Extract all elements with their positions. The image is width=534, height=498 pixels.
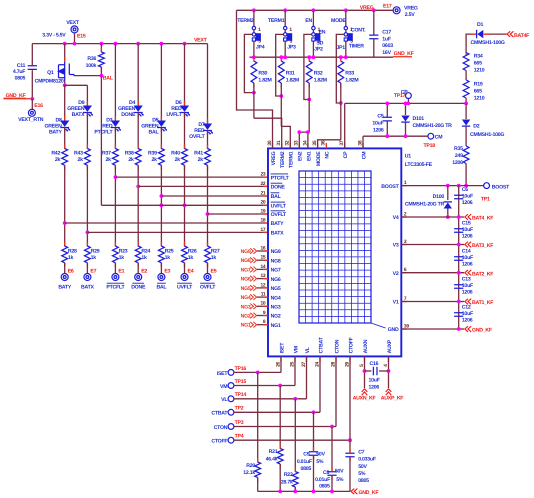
svg-text:BATX: BATX xyxy=(81,285,95,291)
svg-text:PTCFLT: PTCFLT xyxy=(94,130,113,136)
svg-text:TERM2: TERM2 xyxy=(280,151,286,168)
resistor R28 1k xyxy=(62,246,68,263)
capacitor C15 10uF xyxy=(454,229,463,233)
svg-text:E2: E2 xyxy=(141,269,147,275)
resistor R29 1k xyxy=(85,246,91,263)
wire C7 column xyxy=(349,440,351,453)
LED D8 xyxy=(60,121,70,132)
svg-text:R29: R29 xyxy=(91,249,100,255)
LED D7 xyxy=(203,124,213,135)
node AUXN_KF xyxy=(362,389,368,395)
svg-text:C11: C11 xyxy=(17,63,26,69)
svg-text:UVFLT: UVFLT xyxy=(177,285,193,291)
svg-text:OVFLT: OVFLT xyxy=(189,134,205,140)
svg-text:JP4: JP4 xyxy=(256,44,265,50)
node VEXT bus xyxy=(32,43,207,45)
node GND bus (jumpers) xyxy=(250,56,394,58)
capacitor C17 xyxy=(373,10,375,35)
pin 12 NG5 xyxy=(257,287,268,289)
svg-text:1k: 1k xyxy=(165,255,171,261)
resistor R34 xyxy=(465,52,467,56)
pin 26 ISET xyxy=(280,356,282,362)
svg-text:NG7: NG7 xyxy=(241,267,251,273)
resistor R31 1.82M xyxy=(278,61,284,83)
svg-text:D2: D2 xyxy=(473,124,479,130)
svg-text:DONE: DONE xyxy=(271,185,286,191)
svg-text:BAT2_KF: BAT2_KF xyxy=(472,271,493,277)
wire Q1 gate to BAL node xyxy=(74,75,102,77)
svg-text:5%: 5% xyxy=(316,459,324,465)
test point TP2 CTBAT xyxy=(228,409,234,415)
svg-text:EN: EN xyxy=(319,30,326,36)
svg-text:R31: R31 xyxy=(286,71,295,77)
svg-text:C12: C12 xyxy=(462,305,471,311)
diode D2 xyxy=(465,103,467,119)
transistor Q1 CMPDM8120 xyxy=(64,44,66,62)
resistor R36 xyxy=(99,52,105,67)
svg-text:JP2: JP2 xyxy=(314,46,323,52)
svg-text:BATX: BATX xyxy=(271,231,285,237)
svg-text:UVFLT: UVFLT xyxy=(271,204,287,210)
test point TP15 VM xyxy=(228,383,234,389)
wire Q1 source node xyxy=(64,81,66,86)
svg-text:U1: U1 xyxy=(405,154,411,160)
pin 8 NG1 xyxy=(257,324,268,326)
svg-text:TERM1: TERM1 xyxy=(289,151,295,168)
svg-text:NG8: NG8 xyxy=(241,258,251,264)
svg-text:VM: VM xyxy=(220,384,227,390)
svg-text:2k: 2k xyxy=(175,157,181,163)
node BAL xyxy=(100,74,104,78)
svg-text:1206: 1206 xyxy=(373,128,384,134)
svg-text:E7: E7 xyxy=(90,269,96,275)
svg-text:1k: 1k xyxy=(211,255,217,261)
node GND_KF (left) xyxy=(4,98,33,100)
svg-text:R25: R25 xyxy=(165,249,174,255)
R35 xyxy=(463,146,469,164)
wire C11 branch xyxy=(31,44,33,66)
TP18 CM xyxy=(428,133,434,139)
wire row PTCFLT pin23 xyxy=(115,176,268,178)
svg-text:50V: 50V xyxy=(358,464,367,470)
resistor R22 28.7k xyxy=(292,472,298,488)
svg-text:C17: C17 xyxy=(382,29,391,35)
svg-text:10uF: 10uF xyxy=(369,377,380,383)
svg-text:17: 17 xyxy=(260,227,265,233)
svg-text:R24: R24 xyxy=(141,249,150,255)
pin 2 V4 xyxy=(401,216,407,218)
wire AUXP xyxy=(388,356,390,388)
wire CM net xyxy=(363,135,428,137)
svg-text:BAL: BAL xyxy=(156,285,167,291)
svg-text:28.7k: 28.7k xyxy=(281,479,293,485)
resistor R41 2k xyxy=(205,149,211,166)
svg-text:C5: C5 xyxy=(377,114,383,120)
svg-text:1210: 1210 xyxy=(474,67,485,73)
svg-text:C16: C16 xyxy=(370,361,379,367)
svg-text:100k: 100k xyxy=(86,63,97,69)
LED D4 xyxy=(134,106,144,117)
wire C8 column xyxy=(331,427,333,472)
svg-text:ISET: ISET xyxy=(217,371,229,377)
svg-text:VL: VL xyxy=(221,397,228,403)
pin 13 NG6 xyxy=(257,278,268,280)
svg-text:36: 36 xyxy=(321,140,327,145)
pin 38 CM xyxy=(362,143,364,149)
svg-text:TP3: TP3 xyxy=(235,420,244,426)
test point TP3 CTON xyxy=(228,424,234,430)
svg-text:NG1: NG1 xyxy=(271,323,281,329)
svg-text:V1: V1 xyxy=(393,300,399,306)
BOOST TP1 xyxy=(484,183,490,189)
svg-text:ISET: ISET xyxy=(279,342,285,354)
svg-text:EN2: EN2 xyxy=(298,151,304,161)
svg-text:NG9: NG9 xyxy=(271,249,281,255)
svg-text:R43: R43 xyxy=(74,150,83,156)
pin 37 CP xyxy=(344,143,346,149)
test point E3 xyxy=(158,274,165,281)
capacitor C14 10uF xyxy=(454,257,463,261)
wire column D3 xyxy=(114,44,116,120)
svg-text:E4: E4 xyxy=(188,269,194,275)
svg-text:NG9: NG9 xyxy=(241,249,251,255)
svg-text:BAT4F: BAT4F xyxy=(514,33,529,39)
svg-text:TP16: TP16 xyxy=(235,366,247,372)
svg-text:R32: R32 xyxy=(314,71,323,77)
svg-text:R40: R40 xyxy=(171,150,180,156)
svg-text:16: 16 xyxy=(260,245,265,251)
svg-text:10uF: 10uF xyxy=(462,283,473,289)
svg-text:C9: C9 xyxy=(303,451,309,457)
svg-text:CTBAT: CTBAT xyxy=(318,336,324,353)
resistor R20 12.1k xyxy=(255,462,261,478)
resistor R40 2k xyxy=(182,149,188,166)
test point E17 xyxy=(393,7,400,14)
svg-text:10uF: 10uF xyxy=(462,227,473,233)
pin 33 EN2 xyxy=(298,143,300,149)
svg-text:VEXT: VEXT xyxy=(194,38,208,44)
wire column D7 xyxy=(207,44,209,123)
svg-text:BAT1_KF: BAT1_KF xyxy=(472,300,493,306)
svg-text:V4: V4 xyxy=(393,215,399,221)
wire CTBAT row xyxy=(234,411,320,413)
wire row BAL pin21 xyxy=(161,195,268,197)
capacitor C13 10uF xyxy=(454,285,463,289)
resistor R38 2k xyxy=(135,149,141,166)
wire VREG to E17 xyxy=(374,9,393,11)
svg-text:15: 15 xyxy=(260,255,265,261)
svg-text:GND_KF: GND_KF xyxy=(359,490,379,496)
svg-text:4.7uF: 4.7uF xyxy=(13,69,25,75)
resistor R43 2k xyxy=(85,149,91,166)
diode D2 CMMSH1-100G xyxy=(462,120,470,127)
svg-text:1.82M: 1.82M xyxy=(345,77,358,83)
svg-text:1206: 1206 xyxy=(462,318,473,324)
wire EN to pins 33/34 xyxy=(299,132,309,148)
wire row BATX pin17 xyxy=(87,231,268,233)
svg-text:10uF: 10uF xyxy=(462,194,473,200)
svg-text:D101: D101 xyxy=(413,116,425,122)
svg-text:2k: 2k xyxy=(55,157,61,163)
node GND bus bottom xyxy=(258,490,350,492)
svg-text:TP15: TP15 xyxy=(235,379,247,385)
svg-text:E1: E1 xyxy=(118,269,124,275)
wire CTON row xyxy=(234,426,336,428)
svg-text:2.5V: 2.5V xyxy=(405,12,415,18)
svg-text:10uF: 10uF xyxy=(372,121,383,127)
node AUXP_KF xyxy=(386,389,392,395)
wire row BATY pin18 xyxy=(65,222,268,224)
svg-text:1k: 1k xyxy=(91,255,97,261)
svg-text:VL: VL xyxy=(305,346,311,353)
wire column D5 xyxy=(160,44,162,120)
resistor R30 1.82M xyxy=(251,61,257,83)
svg-text:NG7: NG7 xyxy=(271,268,281,274)
svg-text:SD: SD xyxy=(316,40,323,46)
svg-text:2k: 2k xyxy=(198,157,204,163)
svg-text:R21: R21 xyxy=(269,449,278,455)
svg-text:R37: R37 xyxy=(102,150,111,156)
svg-text:MODE: MODE xyxy=(331,18,346,24)
svg-text:0805: 0805 xyxy=(300,466,311,472)
test point E6 xyxy=(61,274,68,281)
pin 15 NG8 xyxy=(257,259,268,261)
pin 34 EN1 xyxy=(307,143,309,149)
svg-text:BOOST: BOOST xyxy=(381,184,399,190)
svg-text:NG6: NG6 xyxy=(241,277,251,283)
svg-text:E3: E3 xyxy=(164,269,170,275)
svg-text:1206: 1206 xyxy=(452,160,463,166)
svg-text:R20: R20 xyxy=(246,463,255,469)
test point E7 xyxy=(84,274,91,281)
svg-text:AUXN: AUXN xyxy=(363,339,369,353)
svg-text:BAT3_KF: BAT3_KF xyxy=(472,243,493,249)
pin 6 V2 xyxy=(401,272,407,274)
svg-text:BAL: BAL xyxy=(103,75,114,81)
diode D100 xyxy=(447,186,449,200)
svg-text:R39: R39 xyxy=(148,150,157,156)
svg-text:0805: 0805 xyxy=(15,76,26,82)
resistor R21 46.4k xyxy=(277,449,283,465)
capacitor C5 xyxy=(386,103,388,117)
svg-text:0805: 0805 xyxy=(319,484,330,490)
svg-text:CTON: CTON xyxy=(214,425,228,431)
test point E4 xyxy=(181,274,188,281)
wire EN signal xyxy=(304,34,312,99)
capacitor C12 10uF xyxy=(454,313,463,317)
test point E15 xyxy=(71,26,78,33)
svg-text:GND: GND xyxy=(388,327,399,333)
test point TP4 CTOFF xyxy=(228,437,234,443)
svg-text:R36: R36 xyxy=(87,56,96,62)
svg-text:CMMSH1-100G: CMMSH1-100G xyxy=(470,132,504,138)
svg-text:2k: 2k xyxy=(128,157,134,163)
svg-text:22: 22 xyxy=(260,181,265,187)
capacitor C16 xyxy=(373,367,377,375)
svg-text:E16: E16 xyxy=(34,103,43,109)
svg-text:0805: 0805 xyxy=(358,478,369,484)
pin 7 V1 xyxy=(401,301,407,303)
svg-text:1.82M: 1.82M xyxy=(314,77,327,83)
svg-text:1k: 1k xyxy=(68,255,74,261)
svg-text:JP3: JP3 xyxy=(287,44,296,50)
wire R22 column xyxy=(294,399,296,472)
svg-text:CM: CM xyxy=(361,152,367,160)
pin 39 GND xyxy=(401,328,407,330)
svg-text:CP: CP xyxy=(343,151,349,158)
svg-text:BATY: BATY xyxy=(58,285,72,291)
svg-text:2k: 2k xyxy=(152,157,158,163)
svg-text:V3: V3 xyxy=(393,243,399,249)
wire TERM1 to pin32 xyxy=(281,126,290,148)
pin 30 VREG xyxy=(272,143,274,149)
wire row OVFLT pin19 xyxy=(208,213,269,215)
svg-text:5%: 5% xyxy=(358,471,366,477)
svg-text:12: 12 xyxy=(260,282,265,288)
pin 28 CTON xyxy=(335,356,337,362)
svg-text:VM: VM xyxy=(293,346,299,353)
svg-text:R35: R35 xyxy=(454,146,463,152)
svg-text:14: 14 xyxy=(260,264,265,270)
wire CP net xyxy=(345,102,466,104)
svg-text:DONE: DONE xyxy=(131,285,146,291)
svg-text:0.01uF: 0.01uF xyxy=(297,459,312,465)
svg-text:BATY: BATY xyxy=(271,221,285,227)
resistor R23 1k xyxy=(113,246,119,263)
svg-text:CTOFF: CTOFF xyxy=(348,337,354,353)
svg-text:NG5: NG5 xyxy=(271,286,281,292)
svg-text:10uF: 10uF xyxy=(462,311,473,317)
test point E5 xyxy=(204,274,211,281)
svg-text:1.82M: 1.82M xyxy=(286,77,299,83)
svg-text:EN: EN xyxy=(305,18,312,24)
resistor R27 1k xyxy=(205,246,211,263)
svg-text:50V: 50V xyxy=(316,451,325,457)
svg-text:3.3V - 5.5V: 3.3V - 5.5V xyxy=(42,32,66,38)
wire VREG to pin30 xyxy=(237,10,273,148)
svg-text:VEXT_RTN: VEXT_RTN xyxy=(18,117,44,123)
svg-text:13: 13 xyxy=(260,273,265,279)
pin 10 NG3 xyxy=(257,305,268,307)
svg-text:TERM2: TERM2 xyxy=(237,18,254,24)
svg-text:0603: 0603 xyxy=(382,43,393,49)
svg-text:E6: E6 xyxy=(68,269,74,275)
capacitor C11 xyxy=(28,66,37,70)
svg-text:11: 11 xyxy=(261,292,266,298)
svg-text:2k: 2k xyxy=(106,157,112,163)
wire column D6 xyxy=(184,44,186,105)
svg-text:50V: 50V xyxy=(335,469,344,475)
svg-text:CONT.: CONT. xyxy=(351,28,366,34)
svg-text:OVFLT: OVFLT xyxy=(271,212,287,218)
svg-text:PTCFLT: PTCFLT xyxy=(271,175,290,181)
svg-text:1206: 1206 xyxy=(462,234,473,240)
test point E2 xyxy=(135,274,142,281)
svg-text:BAL: BAL xyxy=(148,130,159,136)
resistor R24 1k xyxy=(135,246,141,263)
node VREG bus xyxy=(237,9,374,11)
svg-text:1206: 1206 xyxy=(462,200,473,206)
wire VL row xyxy=(234,398,307,400)
diode D100 CMMSH1-20G TR xyxy=(444,202,452,209)
wire TERM1 signal xyxy=(276,34,284,96)
wire cap stack column xyxy=(458,186,460,329)
test point E16 xyxy=(28,109,35,116)
wire MODE to pin35 xyxy=(318,140,341,149)
capacitor C6 10uF xyxy=(454,195,463,199)
test point TP17 xyxy=(407,99,409,104)
resistor R39 2k xyxy=(159,149,165,166)
svg-text:CMPDM8120: CMPDM8120 xyxy=(35,79,64,85)
pin 9 NG2 xyxy=(257,315,268,317)
wire row UVFLT pin20 xyxy=(101,204,268,206)
wire CTOFF row xyxy=(234,439,350,441)
svg-text:TERM1: TERM1 xyxy=(268,18,285,24)
wire BAL vertical to pin20 row xyxy=(100,76,102,206)
wire C9 column xyxy=(313,412,315,451)
svg-text:AUXP_KF: AUXP_KF xyxy=(381,395,404,401)
resistor R42 2k xyxy=(62,149,68,166)
svg-text:CMMSH1-100G: CMMSH1-100G xyxy=(471,40,505,46)
wire VM row xyxy=(234,385,295,387)
svg-text:BAT4_KF: BAT4_KF xyxy=(472,216,493,222)
svg-text:E17: E17 xyxy=(383,4,392,10)
svg-text:NG4: NG4 xyxy=(241,295,251,301)
svg-text:249: 249 xyxy=(455,153,463,159)
wire column D4 xyxy=(137,44,139,105)
svg-text:C6: C6 xyxy=(462,187,468,193)
svg-text:BAL: BAL xyxy=(271,194,282,200)
svg-text:C13: C13 xyxy=(462,277,471,283)
pin 1 BOOST xyxy=(401,185,407,187)
svg-text:1k: 1k xyxy=(188,255,194,261)
svg-text:VREG: VREG xyxy=(271,151,277,165)
resistor R37 2k xyxy=(113,149,119,166)
svg-text:TP4: TP4 xyxy=(235,434,244,440)
svg-text:AUXP: AUXP xyxy=(387,339,393,353)
resistor R32 1.82M xyxy=(306,61,312,83)
svg-text:12.1k: 12.1k xyxy=(243,470,255,476)
svg-text:NG3: NG3 xyxy=(271,305,281,311)
resistor R25 1k xyxy=(159,246,165,263)
svg-text:BATX: BATX xyxy=(72,112,86,118)
svg-text:R26: R26 xyxy=(188,249,197,255)
svg-text:PTCFLT: PTCFLT xyxy=(106,285,125,291)
svg-text:21: 21 xyxy=(260,190,265,196)
svg-text:OVFLT: OVFLT xyxy=(200,285,216,291)
wire MODE signal xyxy=(336,34,344,103)
svg-text:CM: CM xyxy=(435,134,443,140)
wire column D8 xyxy=(64,85,66,120)
resistor R26 1k xyxy=(182,246,188,263)
pin 32 TERM1 xyxy=(289,143,291,149)
wire TERM2 signal xyxy=(244,34,254,92)
svg-text:R22: R22 xyxy=(284,472,293,478)
wire V row BAT3_KF xyxy=(401,244,464,246)
svg-text:C8: C8 xyxy=(323,470,329,476)
svg-text:0.033uF: 0.033uF xyxy=(358,457,376,463)
test point TP14 VL xyxy=(228,396,234,402)
svg-text:AUXN_KF: AUXN_KF xyxy=(353,395,376,401)
wire V row BAT2_KF xyxy=(401,272,464,274)
svg-text:D1: D1 xyxy=(477,22,483,28)
wire V row BAT4_KF xyxy=(401,216,464,218)
svg-text:BATY: BATY xyxy=(49,130,63,136)
pin 11 NG4 xyxy=(257,296,268,298)
svg-text:R19: R19 xyxy=(474,82,483,88)
svg-text:2k: 2k xyxy=(78,157,84,163)
svg-text:10: 10 xyxy=(260,301,265,307)
